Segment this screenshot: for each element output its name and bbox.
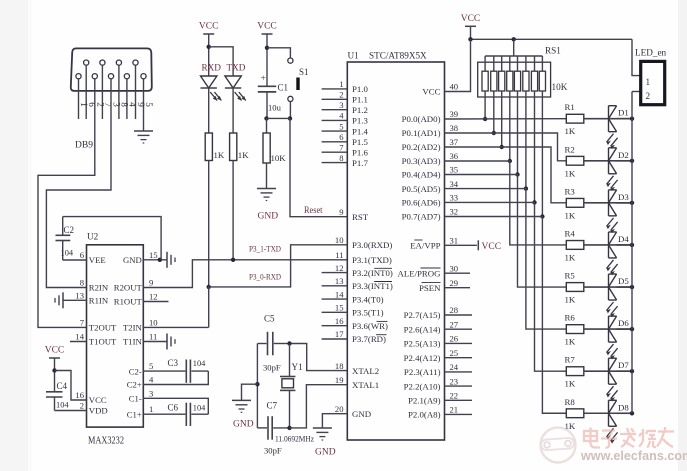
svg-text:11: 11 [149,332,157,342]
svg-text:30pF: 30pF [263,363,281,373]
svg-text:RXD: RXD [202,63,222,73]
RS1 resistor element 6 [525,56,527,71]
svg-text:TXD: TXD [227,63,246,73]
svg-text:3: 3 [339,100,343,110]
wire P0.5 to R6 [445,189,567,330]
svg-text:R6: R6 [565,313,576,323]
power VCC at EA/VPP [477,240,479,250]
svg-text:8: 8 [80,278,84,288]
svg-text:21: 21 [450,405,459,415]
U1 right overline marks [414,239,422,241]
junction RS1-2 to P0.1 [492,131,496,135]
svg-text:23: 23 [450,376,459,386]
DB9 pin 3 [108,74,113,79]
junction rail D6 [630,327,634,331]
svg-text:5: 5 [144,102,154,107]
svg-text:P3.3(INT1): P3.3(INT1) [352,281,393,291]
svg-text:4: 4 [128,102,138,107]
svg-text:Reset: Reset [304,205,323,215]
svg-text:P0.4(AD4): P0.4(AD4) [402,170,441,180]
wire P0.6 to R7 [445,202,567,371]
U2 pin 11 T1IN stub and ground [143,341,167,343]
svg-text:VCC: VCC [482,242,502,252]
svg-text:Y1: Y1 [292,362,304,372]
wire DB9 pin3 to R2IN [46,79,111,288]
svg-text:28: 28 [450,305,459,315]
svg-text:R3: R3 [565,186,576,196]
wire R3 to D3 [584,202,632,204]
svg-text:T1IN: T1IN [123,337,143,347]
svg-text:12: 12 [335,263,344,273]
junction RXD LED [207,285,211,289]
junction RS1-1 to P0.0 [483,117,487,121]
LED D4 emission arrows [607,260,614,269]
junction VCC split RXD/TXD [207,45,211,49]
svg-text:5: 5 [339,121,343,131]
svg-text:P1.3: P1.3 [352,116,368,126]
LED D2 emission arrows [607,176,614,185]
svg-text:10K: 10K [271,153,287,163]
svg-text:17: 17 [335,329,344,339]
U1 left pin stubs [322,88,348,90]
wire LED_en pin2 to rail [632,91,641,93]
svg-text:VCC: VCC [199,22,219,32]
DB9 pin 9 [133,60,138,65]
svg-text:T2OUT: T2OUT [89,323,117,333]
switch S1 [288,58,293,63]
svg-text:P2.7(A15): P2.7(A15) [404,310,441,320]
svg-text:7: 7 [80,317,85,327]
U2 pin 12 R1OUT stub [143,301,168,303]
wire U2 pin6 VEE [63,259,87,261]
svg-text:6: 6 [339,132,344,142]
DB9 pin 1 [76,74,81,79]
wire to TXD LED [209,47,233,76]
junction S1 bottom [288,116,292,120]
resistor 1K for TXD LED [230,133,237,161]
op-amp U2 MAX3232 body [87,245,144,427]
wire D1 to rail [617,118,632,120]
svg-text:VCC: VCC [257,22,277,32]
wire R5 to D5 [584,286,632,288]
wire P0.2 to R3 [445,147,567,203]
wire C2 top to U2 GND pin15 [63,217,161,260]
svg-text:GND: GND [315,448,336,458]
svg-text:PSEN: PSEN [419,283,441,293]
svg-text:R7: R7 [565,355,576,365]
svg-text:R2: R2 [565,144,575,154]
junction RS1-8 to P0.7 [540,214,544,218]
wire C7 to XTAL1 [290,385,348,428]
svg-text:20: 20 [335,404,344,414]
junction ground branch [255,382,259,386]
svg-text:P1.5: P1.5 [352,137,368,147]
svg-text:10: 10 [335,235,344,245]
svg-text:P3_0-RXD: P3_0-RXD [249,272,281,282]
svg-text:2: 2 [339,90,343,100]
svg-text:4: 4 [149,375,154,385]
wire EA/VPP to VCC [445,244,477,246]
svg-text:P3.0(RXD): P3.0(RXD) [352,240,392,250]
LED D7 emission arrows [607,386,614,395]
junction rail D8 [630,411,634,415]
svg-text:P3.5(T1): P3.5(T1) [352,308,384,318]
wire DB9 pin2 to T2OUT [38,79,95,328]
wire RXD net T2IN to P3.0 [143,326,208,328]
svg-text:R1IN: R1IN [89,296,109,306]
wire VCC to switch S1 [267,48,290,58]
svg-text:RST: RST [352,212,369,222]
junction VCC split C1/S1 [265,46,269,50]
svg-text:P2.0(A8): P2.0(A8) [408,410,441,420]
LED D6 emission arrows [607,344,614,353]
svg-text:13: 13 [75,290,84,300]
svg-text:24: 24 [450,362,459,372]
svg-text:34: 34 [450,179,459,189]
svg-text:11.0692MHz: 11.0692MHz [275,434,314,444]
svg-text:10: 10 [149,317,158,327]
junction RS1 feeder [512,37,516,41]
mcu U1 STC/AT89X5X body [347,62,444,440]
svg-text:15: 15 [335,303,344,313]
svg-text:16: 16 [335,316,344,326]
svg-text:P1.7: P1.7 [352,158,368,168]
connector LED_en body [641,61,665,104]
svg-text:1: 1 [339,79,343,89]
svg-text:1K: 1K [565,337,576,347]
U2 pin 15 GND wire and ground symbol [143,259,167,261]
svg-text:7: 7 [339,142,344,152]
svg-text:P0.0(AD0): P0.0(AD0) [402,114,441,124]
svg-text:C2+: C2+ [127,380,142,390]
junction C1 bottom [264,116,268,120]
svg-text:P0.3(AD3): P0.3(AD3) [402,156,441,166]
wire D7 to rail [617,370,632,372]
svg-text:1K: 1K [565,252,576,262]
wire P0.1 to R2 [445,133,567,161]
svg-text:EA/VPP: EA/VPP [410,241,440,251]
ground for DB9 pin 5 [134,130,153,132]
capacitor C6 [143,413,185,415]
svg-text:P0.1(AD1): P0.1(AD1) [402,128,441,138]
svg-text:U1: U1 [348,51,360,61]
DB9 pin 8 [116,60,121,65]
svg-text:19: 19 [335,375,344,385]
connector DB9 body [71,48,152,91]
capacitor C4 [46,391,63,393]
svg-text:P1.6: P1.6 [352,147,368,157]
svg-text:P2.4(A12): P2.4(A12) [404,353,441,363]
watermark chinese text [584,427,674,448]
svg-text:26: 26 [450,334,459,344]
resistor 1K for RXD LED [205,133,212,161]
RS1 resistor element 1 [484,56,486,71]
wire P0.7 to R8 [445,217,567,414]
svg-text:C3: C3 [168,358,179,368]
svg-text:5: 5 [149,361,153,371]
svg-text:33: 33 [450,193,459,203]
resistor network RS1 box [478,62,551,97]
wire D5 to rail [617,286,632,288]
svg-text:C2-: C2- [129,366,142,376]
svg-text:XTAL2: XTAL2 [352,366,379,376]
wire VCC to U2 pin16 [55,371,87,401]
capacitor C3 [143,370,185,372]
svg-text:13: 13 [335,276,344,286]
svg-text:P2.3(A11): P2.3(A11) [404,367,441,377]
svg-text:D4: D4 [618,234,629,244]
DB9 pin 5 [141,74,146,79]
svg-text:104: 104 [56,401,69,410]
wire rail to LED_en pin1 [632,39,641,75]
capacitor C2 [62,217,64,236]
svg-text:9: 9 [339,207,343,217]
svg-text:D6: D6 [618,318,629,328]
svg-text:35: 35 [450,165,459,175]
RS1 feeder wire [513,39,515,56]
LED D8 [608,400,610,426]
svg-text:40: 40 [450,82,459,92]
svg-text:VCC: VCC [422,87,440,97]
junction U2 pin15 [158,258,162,262]
wire R1 to D1 [584,118,632,120]
U1 overline marks [374,267,392,269]
svg-text:C1-: C1- [129,394,142,404]
svg-text:VDD: VDD [89,406,108,416]
LED D5 [608,274,610,300]
junction rail D1 [630,117,634,121]
svg-text:P2.1(A9): P2.1(A9) [408,396,441,406]
svg-text:1K: 1K [565,168,576,178]
LED D2 [608,148,610,174]
svg-text:37: 37 [450,137,459,147]
svg-text:P1.4: P1.4 [352,126,368,136]
LED TXD [225,76,241,88]
svg-text:14: 14 [335,289,344,299]
svg-text:S1: S1 [299,67,309,77]
LED D5 emission arrows [607,302,614,311]
svg-text:104: 104 [61,249,74,258]
U1 pin30 pin29 stubs [445,272,471,274]
wire C5 to XTAL2 [290,344,348,371]
U1 P2 pin stubs [445,314,473,316]
wire U1 pin40 to rail [445,39,471,91]
junction C7/Y1 [287,426,291,430]
svg-text:2: 2 [80,401,84,411]
LED D7 [608,358,610,384]
RS1 resistor element 3 [501,56,503,71]
wire D4 to rail [617,244,632,246]
wire R4 to D4 [584,244,632,246]
wire VCC rail [471,38,633,40]
svg-text:18: 18 [335,361,344,371]
svg-text:10K: 10K [552,82,568,92]
junction rail D2 [630,159,634,163]
svg-text:P3.7(RD): P3.7(RD) [352,334,386,344]
RS1 resistor element 7 [534,56,536,71]
wire C3 loop to U2 pin4 C2+ [143,371,208,384]
RS1 resistor element 4 [509,56,511,71]
svg-text:P0.2(AD2): P0.2(AD2) [402,142,441,152]
wire R7 to D7 [584,370,632,372]
svg-text:1K: 1K [565,379,576,389]
resistor 10K reset pulldown [266,118,268,133]
LED D3 [608,190,610,216]
svg-text:30pF: 30pF [264,446,282,456]
U2 pin 14 T1OUT stub [70,341,87,343]
svg-text:P3.6(WR): P3.6(WR) [352,321,388,331]
svg-text:1K: 1K [214,150,225,160]
svg-text:8: 8 [339,153,343,163]
svg-text:104: 104 [193,359,206,368]
wire reset net down to RST [290,118,347,216]
wire P0.4 to R5 [445,175,567,288]
svg-text:27: 27 [450,319,459,329]
svg-text:1K: 1K [565,126,576,136]
wire LED cathode rail [631,92,633,414]
left rail C5/C7 ground [256,344,258,428]
svg-text:P0.7(AD7): P0.7(AD7) [402,212,441,222]
wire C4 to U2 pin2 VDD [55,410,87,412]
svg-text:C1+: C1+ [127,409,142,419]
svg-text:+: + [261,74,266,84]
svg-text:22: 22 [450,391,459,401]
svg-text:P1.0: P1.0 [352,84,368,94]
svg-text:D5: D5 [618,276,629,286]
wire D2 to rail [617,160,632,162]
svg-text:P2.6(A14): P2.6(A14) [404,324,441,334]
junction RS1-7 to P0.6 [532,200,536,204]
RS1 resistor element 2 [493,56,495,71]
wire P0.0 to R1 [445,118,567,120]
junction VCC/C4 [52,368,56,372]
svg-text:1K: 1K [565,210,576,220]
svg-text:R8: R8 [565,397,576,407]
wire R8 to D8 [584,412,632,414]
DB9 pin 4 [124,74,129,79]
svg-text:4: 4 [339,111,344,121]
junction rail D4 [630,243,634,247]
svg-text:P3.2(INT0): P3.2(INT0) [352,268,393,278]
junction rail D3 [630,201,634,205]
svg-text:P2.2(A10): P2.2(A10) [404,381,441,391]
junction VCC/pin40 [468,37,472,41]
wire P0.3 to R4 [445,161,567,245]
svg-text:C4: C4 [57,381,68,391]
svg-text:R2OUT: R2OUT [114,283,143,293]
svg-text:36: 36 [450,151,459,161]
svg-text:1: 1 [646,77,651,87]
svg-text:P0.6(AD6): P0.6(AD6) [402,198,441,208]
svg-text:P0.5(AD5): P0.5(AD5) [402,184,441,194]
svg-text:VEE: VEE [89,255,106,265]
DB9 pin 6 [84,60,89,65]
svg-text:C7: C7 [267,401,278,411]
svg-text:C6: C6 [168,403,179,413]
svg-text:30: 30 [450,263,459,273]
svg-text:C1: C1 [278,83,289,93]
svg-text:GND: GND [258,212,279,222]
wire D3 to rail [617,202,632,204]
svg-text:P2.5(A13): P2.5(A13) [404,339,441,349]
svg-text:31: 31 [450,236,459,246]
svg-text:32: 32 [450,207,459,217]
wire D8 to rail [617,412,632,414]
RS1 resistor element 8 [541,56,543,71]
RS1 resistor element 5 [517,56,519,71]
wire TXD net R2OUT to P3.1 [143,260,347,288]
junction C5/Y1 [287,341,291,345]
svg-text:R1OUT: R1OUT [114,297,143,307]
svg-text:P1.2: P1.2 [352,105,368,115]
junction TXD LED [231,258,235,262]
svg-text:LED_en: LED_en [635,48,667,58]
junction rail D7 [630,369,634,373]
watermark elecfans logo [541,428,576,463]
LED D8 emission arrows [607,428,614,437]
ground for U1 pin20 GND [322,414,347,428]
svg-text:www.elecfans.com: www.elecfans.com [580,449,687,463]
svg-text:38: 38 [450,123,459,133]
ground for crystal caps [232,399,251,401]
svg-text:14: 14 [75,332,84,342]
junction RS1-3 to P0.2 [500,145,504,149]
svg-text:VCC: VCC [45,346,65,356]
svg-text:XTAL1: XTAL1 [352,380,379,390]
wire U2 pin3 C1- loop to C6 [143,398,208,414]
junction rail D5 [630,285,634,289]
svg-text:GND: GND [123,255,142,265]
svg-text:DB9: DB9 [75,141,93,151]
svg-text:VCC: VCC [89,395,107,405]
svg-text:C2: C2 [64,225,75,235]
svg-text:2: 2 [646,91,651,101]
svg-text:16: 16 [75,390,84,400]
svg-text:D1: D1 [618,108,629,118]
svg-text:T1OUT: T1OUT [89,337,117,347]
svg-text:P3.1(TXD): P3.1(TXD) [352,255,392,265]
LED D1 emission arrows [607,134,614,143]
svg-text:RS1: RS1 [545,46,561,56]
svg-text:MAX3232: MAX3232 [88,436,124,447]
wire R2 to D2 [584,160,632,162]
svg-text:R1: R1 [565,102,575,112]
svg-text:GND: GND [233,420,254,430]
svg-text:29: 29 [450,278,459,288]
svg-text:1K: 1K [565,295,576,305]
svg-text:P3_1-TXD: P3_1-TXD [249,244,281,254]
svg-text:U2: U2 [87,232,99,242]
svg-text:P1.1: P1.1 [352,95,368,105]
svg-text:104: 104 [193,404,206,413]
DB9 pin 2 [92,74,97,79]
svg-text:3: 3 [149,388,153,398]
svg-text:D2: D2 [618,150,629,160]
svg-text:1: 1 [149,404,153,414]
DB9 pin 7 [100,60,105,65]
RS1 top bus [485,55,542,57]
svg-text:R2IN: R2IN [89,283,109,293]
svg-text:D7: D7 [618,360,629,370]
LED RXD [201,76,217,88]
ground for reset resistor [257,188,276,190]
svg-text:R5: R5 [565,271,576,281]
wire D6 to rail [617,328,632,330]
svg-text:R4: R4 [565,228,576,238]
svg-text:1K: 1K [238,150,249,160]
U2 pin 13 R1IN stub and ground [63,299,87,301]
svg-text:VCC: VCC [461,14,481,24]
